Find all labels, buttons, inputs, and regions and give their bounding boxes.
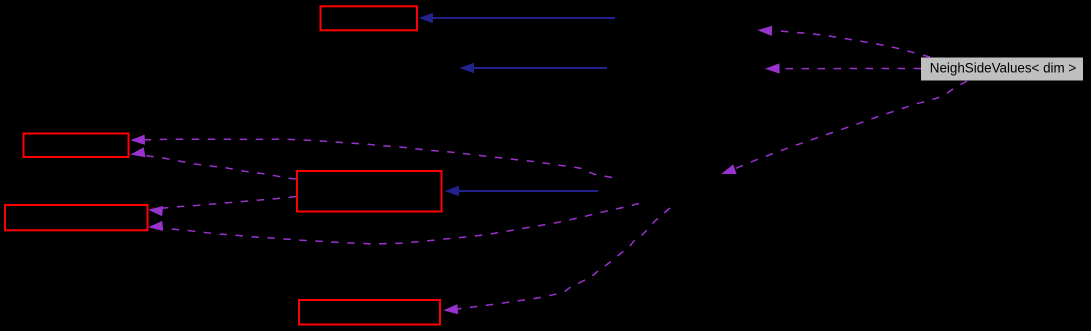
left red box 1 (truncated class) xyxy=(24,134,129,158)
inheritance arrow from invisible node N3 to middle box B xyxy=(445,186,599,196)
usage edge from NeighSideValues to invisible node N1 xyxy=(758,26,931,57)
usage edge from middle box B to left box 2 xyxy=(148,197,296,217)
usage edge from middle box B to left box 1 xyxy=(130,147,296,179)
usage edge from NeighSideValues to invisible node N2 xyxy=(765,63,921,73)
usage edge from invisible node N3 to left box 1 xyxy=(130,135,612,178)
left red box 2 (truncated class) xyxy=(5,205,148,230)
svg-text:NeighSideValues< dim >: NeighSideValues< dim > xyxy=(930,60,1077,75)
middle red box B (truncated class, two lines) xyxy=(297,171,442,212)
bottom red box (truncated class) xyxy=(299,300,440,325)
top red box (truncated class) xyxy=(321,6,418,30)
inheritance arrow from invisible node N2b to invisible node N2a xyxy=(460,63,608,73)
usage edge from invisible node N3 to left box 2 xyxy=(148,204,639,244)
current node NeighSideValues< dim > xyxy=(921,58,1083,81)
usage edge from NeighSideValues to invisible node N3 xyxy=(721,81,967,174)
usage edge from invisible node N3 to bottom box xyxy=(443,208,670,314)
inheritance arrow from invisible node N1 to top red box xyxy=(419,13,616,23)
